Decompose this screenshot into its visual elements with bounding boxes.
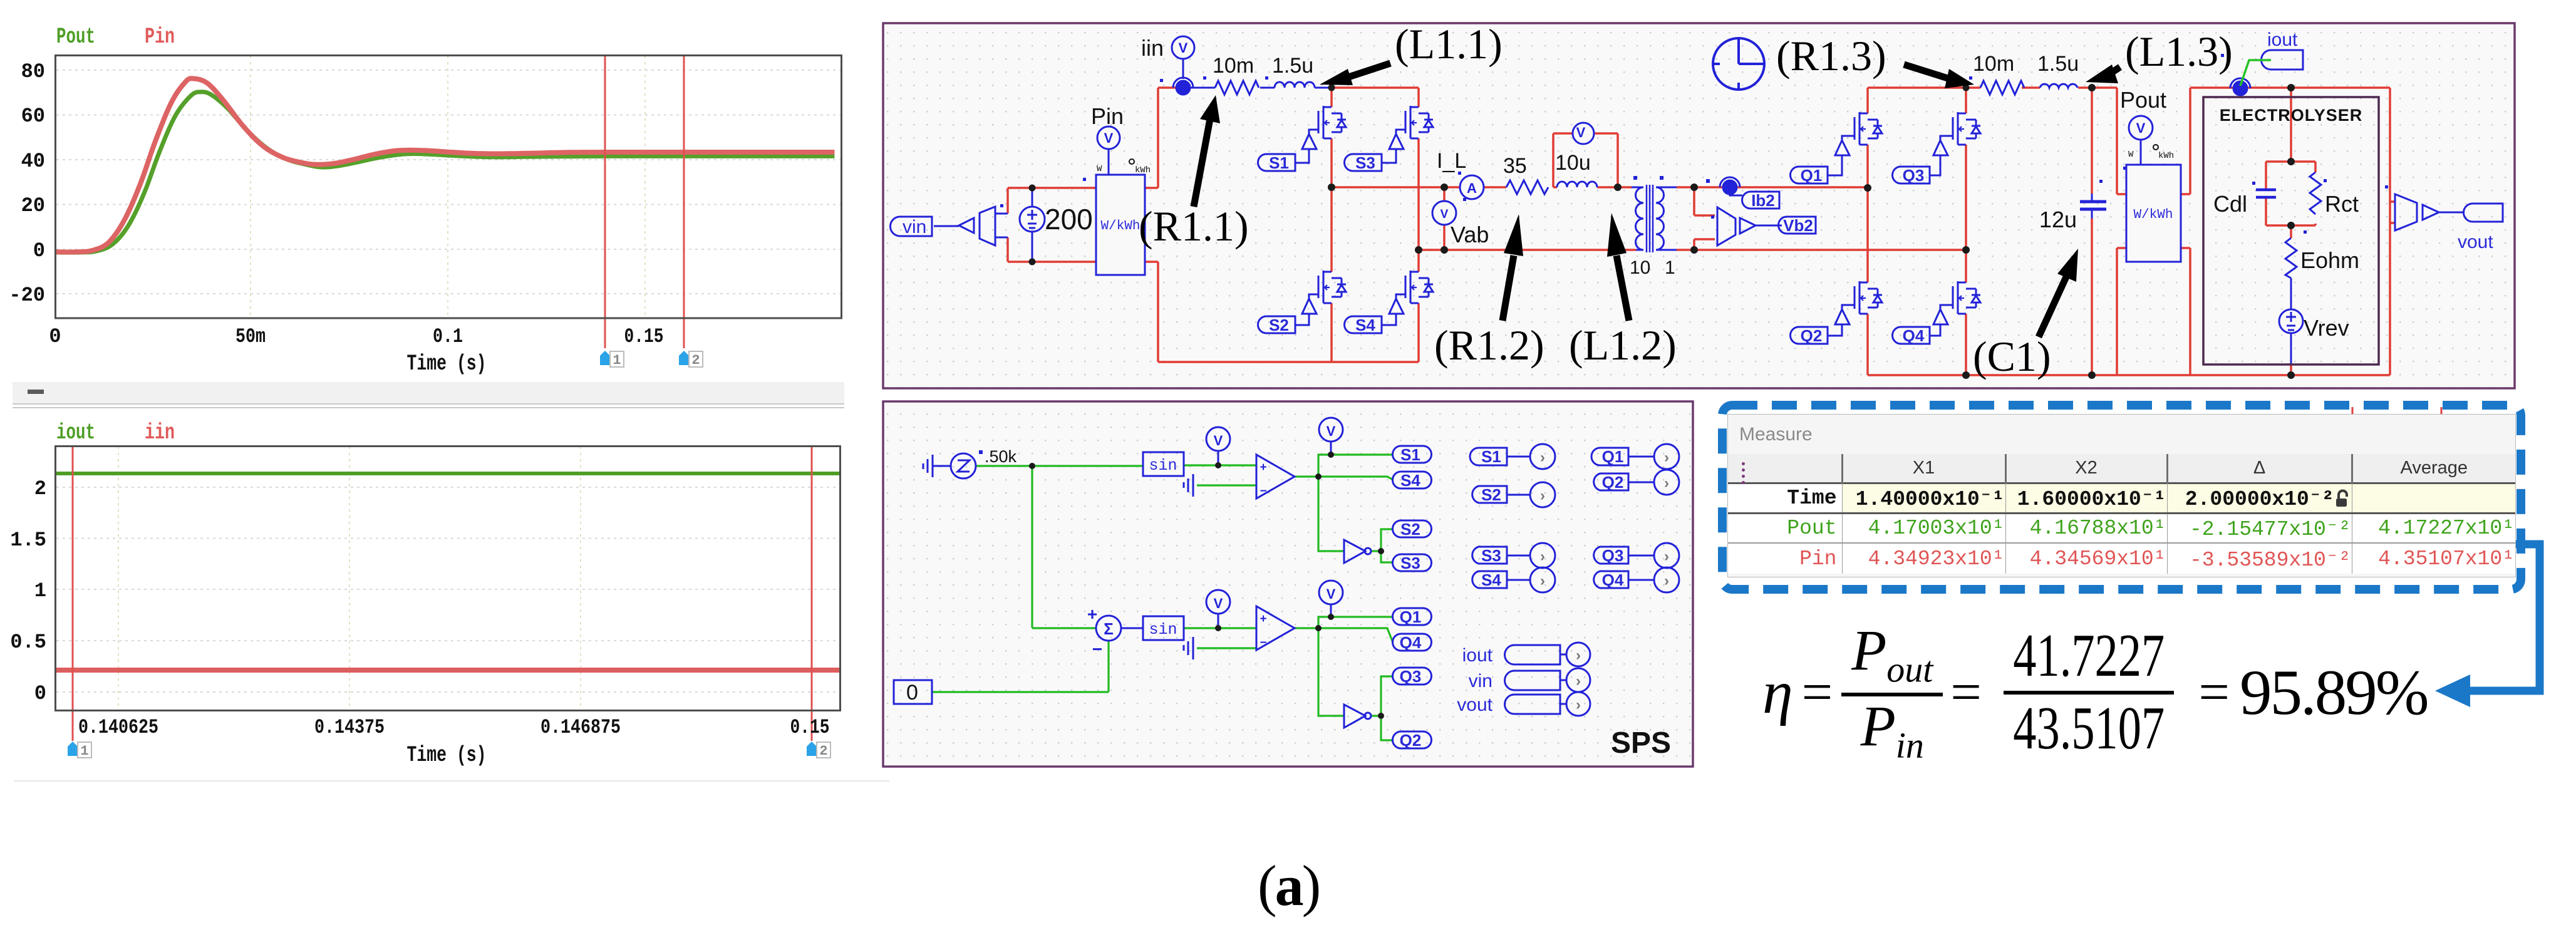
svg-text:Σ: Σ xyxy=(1104,619,1114,638)
svg-text:W: W xyxy=(1097,164,1102,174)
svg-text:Q3: Q3 xyxy=(1903,166,1925,185)
svg-text:vin: vin xyxy=(1469,671,1492,691)
svg-text:(L1.1): (L1.1) xyxy=(1395,20,1503,68)
svg-text:iout: iout xyxy=(2267,29,2298,50)
svg-text:Q4: Q4 xyxy=(1400,633,1422,652)
svg-text:S1: S1 xyxy=(1400,445,1420,464)
svg-text:1: 1 xyxy=(80,743,88,759)
svg-text:›: › xyxy=(1576,696,1581,713)
svg-text:2: 2 xyxy=(34,477,46,500)
svg-text:1: 1 xyxy=(34,579,46,602)
svg-text:(L1.3): (L1.3) xyxy=(2125,28,2233,75)
svg-text:sin: sin xyxy=(1149,457,1177,475)
svg-text:Pin: Pin xyxy=(1091,103,1124,129)
svg-text:W/kWh: W/kWh xyxy=(2133,208,2173,222)
svg-text:V: V xyxy=(1327,586,1336,602)
svg-text:1.5: 1.5 xyxy=(10,529,46,552)
svg-text:V: V xyxy=(1327,423,1336,439)
svg-text:Eohm: Eohm xyxy=(2300,247,2359,273)
svg-text:V: V xyxy=(1214,596,1223,611)
svg-text:+: + xyxy=(1087,604,1097,624)
svg-text:S1: S1 xyxy=(1269,153,1289,172)
svg-text:Ib2: Ib2 xyxy=(1751,191,1775,210)
svg-text:80: 80 xyxy=(21,60,45,83)
svg-text:Pout: Pout xyxy=(2120,87,2166,113)
svg-text:0.14375: 0.14375 xyxy=(314,716,385,739)
svg-text:0.5: 0.5 xyxy=(10,631,46,654)
svg-text:S3: S3 xyxy=(1481,546,1501,565)
svg-text:35: 35 xyxy=(1503,154,1527,178)
svg-text:0: 0 xyxy=(33,239,45,262)
svg-text:›: › xyxy=(1540,572,1545,589)
svg-text:10u: 10u xyxy=(1555,151,1591,175)
svg-text:0: 0 xyxy=(906,681,918,705)
svg-text:Q3: Q3 xyxy=(1602,546,1624,565)
svg-text:2: 2 xyxy=(691,353,700,368)
svg-text:Q2: Q2 xyxy=(1602,473,1624,492)
svg-text:Q2: Q2 xyxy=(1400,731,1422,750)
svg-text:(C1): (C1) xyxy=(1973,333,2051,380)
svg-text:S4: S4 xyxy=(1355,316,1375,334)
svg-text:S3: S3 xyxy=(1355,153,1375,172)
svg-text:V: V xyxy=(2136,120,2146,136)
svg-text:iin: iin xyxy=(1141,35,1164,61)
svg-text:Time (s): Time (s) xyxy=(407,351,487,376)
svg-text:S2: S2 xyxy=(1269,316,1289,334)
svg-text:0.146875: 0.146875 xyxy=(541,716,621,739)
svg-text:Time (s): Time (s) xyxy=(407,743,487,768)
svg-text:kWh: kWh xyxy=(2158,151,2174,161)
svg-text:0.15: 0.15 xyxy=(790,716,830,739)
svg-text:›: › xyxy=(1576,673,1581,690)
svg-text:0.15: 0.15 xyxy=(624,325,664,348)
svg-text:Q1: Q1 xyxy=(1400,607,1422,626)
svg-text:+: + xyxy=(1260,612,1266,626)
svg-text:0.140625: 0.140625 xyxy=(78,716,158,739)
svg-text:V: V xyxy=(1104,130,1114,146)
svg-text:−: − xyxy=(1260,485,1266,498)
svg-text:-20: -20 xyxy=(9,284,45,307)
svg-text:Rct: Rct xyxy=(2325,191,2359,217)
svg-text:Q2: Q2 xyxy=(1801,326,1823,345)
svg-text:vout: vout xyxy=(1457,695,1492,715)
svg-text:kWh: kWh xyxy=(1135,165,1151,175)
svg-text:(R1.1): (R1.1) xyxy=(1139,202,1249,250)
svg-text:Q1: Q1 xyxy=(1801,166,1823,185)
svg-text:Pout: Pout xyxy=(56,24,95,49)
svg-text:.50k: .50k xyxy=(985,447,1017,466)
svg-text:60: 60 xyxy=(21,105,45,128)
svg-text:Q4: Q4 xyxy=(1602,571,1624,589)
svg-text:Vrev: Vrev xyxy=(2304,315,2349,341)
svg-text:ELECTROLYSER: ELECTROLYSER xyxy=(2220,106,2363,125)
svg-text:V: V xyxy=(1576,125,1586,140)
svg-text:Q4: Q4 xyxy=(1903,326,1925,345)
svg-text:50m: 50m xyxy=(235,325,266,348)
svg-text:+: + xyxy=(1260,461,1266,474)
svg-text:Vab: Vab xyxy=(1451,222,1489,247)
svg-text:V: V xyxy=(1441,208,1449,221)
svg-text:20: 20 xyxy=(21,194,45,217)
svg-text:vout: vout xyxy=(2458,232,2493,252)
svg-text:›: › xyxy=(1664,572,1669,589)
svg-text:W/kWh: W/kWh xyxy=(1100,219,1140,234)
svg-text:W: W xyxy=(2128,150,2134,160)
svg-text:›: › xyxy=(1664,548,1669,565)
svg-text:10: 10 xyxy=(1630,257,1650,278)
svg-text:12u: 12u xyxy=(2039,207,2077,232)
svg-text:10m: 10m xyxy=(1213,54,1254,78)
svg-text:−: − xyxy=(1092,639,1102,659)
svg-text:(R1.3): (R1.3) xyxy=(1776,32,1886,80)
svg-text:1.5u: 1.5u xyxy=(1272,54,1313,78)
svg-text:S1: S1 xyxy=(1481,447,1501,466)
svg-text:0: 0 xyxy=(34,682,46,705)
svg-text:S2: S2 xyxy=(1400,520,1420,539)
svg-text:›: › xyxy=(1576,647,1581,664)
svg-text:S4: S4 xyxy=(1400,471,1420,490)
svg-text:Vb2: Vb2 xyxy=(1783,216,1813,235)
svg-text:SPS: SPS xyxy=(1611,726,1671,760)
svg-text:iin: iin xyxy=(145,420,175,445)
svg-text:10m: 10m xyxy=(1973,52,2014,76)
svg-text:›: › xyxy=(1664,449,1669,466)
svg-text:iout: iout xyxy=(56,420,95,445)
svg-text:I_L: I_L xyxy=(1437,149,1466,173)
svg-text:S3: S3 xyxy=(1400,554,1420,572)
svg-text:V: V xyxy=(1214,433,1223,448)
svg-text:0: 0 xyxy=(49,325,61,348)
svg-text:−: − xyxy=(1260,636,1266,649)
svg-text:0.1: 0.1 xyxy=(433,325,463,348)
svg-text:(R1.2): (R1.2) xyxy=(1434,321,1544,369)
svg-text:S4: S4 xyxy=(1481,571,1501,589)
svg-text:Cdl: Cdl xyxy=(2213,191,2247,217)
svg-text:›: › xyxy=(1540,487,1545,504)
svg-text:40: 40 xyxy=(21,150,45,173)
svg-text:›: › xyxy=(1540,548,1545,565)
svg-text:200: 200 xyxy=(1045,203,1093,235)
svg-text:1: 1 xyxy=(613,353,621,368)
svg-text:Q1: Q1 xyxy=(1602,447,1624,466)
svg-text:1: 1 xyxy=(1665,257,1675,278)
svg-text:Pin: Pin xyxy=(145,24,175,49)
svg-text:Q3: Q3 xyxy=(1400,667,1422,686)
svg-text:A: A xyxy=(1467,180,1477,196)
svg-text:(L1.2): (L1.2) xyxy=(1569,321,1677,369)
svg-text:iout: iout xyxy=(1462,645,1493,666)
svg-text:S2: S2 xyxy=(1481,485,1501,504)
svg-text:sin: sin xyxy=(1149,621,1177,639)
svg-text:1.5u: 1.5u xyxy=(2037,52,2079,76)
svg-text:2: 2 xyxy=(819,743,827,759)
svg-text:V: V xyxy=(1179,40,1188,56)
svg-text:›: › xyxy=(1540,449,1545,466)
svg-text:›: › xyxy=(1664,475,1669,492)
svg-text:vin: vin xyxy=(903,217,926,237)
